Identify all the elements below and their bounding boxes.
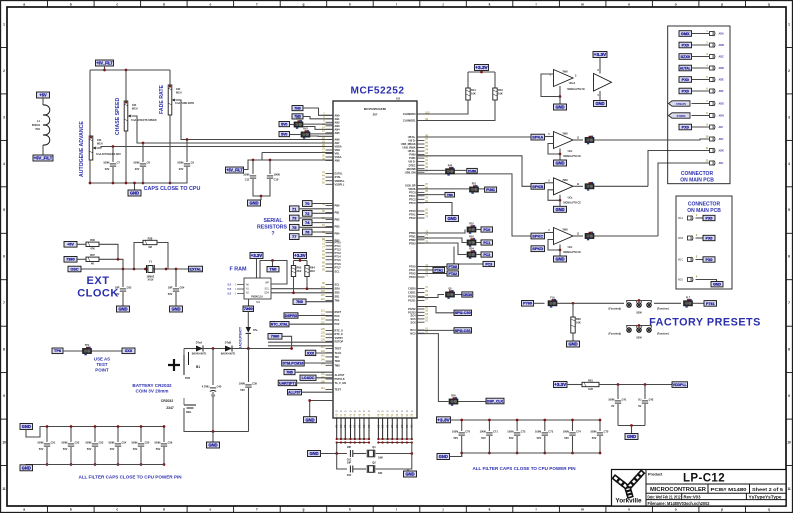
- svg-text:TN0: TN0: [335, 299, 340, 303]
- svg-text:FL7: FL7: [686, 297, 691, 300]
- svg-text:C10: C10: [274, 177, 279, 181]
- net label SUM3b: [531, 246, 545, 252]
- junction bottom rail b: [133, 182, 136, 185]
- svg-text:50V: 50V: [592, 436, 597, 440]
- svg-text:SPKC: SPKC: [532, 233, 543, 238]
- svg-text:i: i: [396, 2, 397, 6]
- svg-text:PTL6: PTL6: [335, 262, 342, 266]
- svg-text:AN6: AN6: [335, 138, 341, 142]
- svg-text:PTB2: PTB2: [409, 238, 416, 242]
- svg-text:d: d: [163, 2, 165, 6]
- svg-text:7N0: 7N0: [296, 300, 303, 304]
- svg-text:PTA1: PTA1: [409, 213, 416, 217]
- svg-text:110: 110: [321, 298, 326, 301]
- capacitor C8 100N: [133, 160, 150, 166]
- svg-text:RESISTORS: RESISTORS: [257, 225, 287, 231]
- svg-text:VSTBY: VSTBY: [335, 336, 344, 340]
- svg-text:MCH: MCH: [176, 91, 182, 94]
- svg-text:SZX0: SZX0: [681, 55, 691, 59]
- svg-text:PB3: PB3: [335, 225, 341, 229]
- svg-text:VDUSB: VDUSB: [407, 167, 416, 171]
- wire U6 vdd: [599, 58, 601, 74]
- svg-text:FACTORY PRESETS: FACTORY PRESETS: [649, 317, 761, 329]
- capacitor C11 100N: [243, 172, 256, 181]
- svg-text:5.5: 5.5: [228, 293, 232, 296]
- svg-text:FL6: FL6: [550, 297, 555, 300]
- svg-text:1M: 1M: [148, 245, 152, 249]
- wire C64 drop: [175, 269, 177, 287]
- svg-text:100N: 100N: [274, 172, 280, 176]
- svg-text:RTC_X: RTC_X: [335, 329, 344, 333]
- svg-text:PTA2: PTA2: [409, 216, 416, 220]
- svg-text:P761: P761: [706, 302, 715, 306]
- svg-text:GND: GND: [555, 257, 564, 262]
- svg-text:ADB: ADB: [719, 44, 724, 47]
- svg-text:7N1: 7N1: [35, 127, 40, 131]
- ferrite R51 cluster: [417, 188, 469, 190]
- wire C7 to rail: [112, 167, 114, 183]
- svg-text:Date: Wed Feb 22, 2012: Date: Wed Feb 22, 2012: [648, 495, 681, 500]
- svg-text:p: p: [721, 2, 723, 6]
- svg-text:SCL: SCL: [335, 269, 341, 273]
- svg-text:100N: 100N: [103, 160, 109, 164]
- ic U3 bottom pins: [336, 410, 414, 439]
- junction osc rail: [122, 268, 125, 271]
- wire mid caps bottom rail: [462, 452, 600, 454]
- svg-text:20V: 20V: [105, 167, 110, 171]
- svg-text:TEST: TEST: [335, 388, 342, 392]
- svg-text:AN1: AN1: [335, 117, 341, 121]
- junction batt mid: [212, 347, 215, 350]
- svg-text:UB D+: UB D+: [408, 149, 416, 153]
- svg-text:8: 8: [788, 348, 790, 352]
- connector J2 box: [676, 196, 732, 289]
- junction U5A fb: [559, 95, 562, 98]
- logo Yorkville: [613, 470, 645, 498]
- svg-text:7360: 7360: [271, 335, 279, 339]
- svg-text:OSC: OSC: [70, 267, 78, 271]
- svg-text:+5V: +5V: [39, 93, 47, 98]
- svg-text:SIGNALVTH CE: SIGNALVTH CE: [567, 88, 585, 91]
- crystal Y1: [147, 265, 155, 273]
- svg-text:7: 7: [3, 301, 5, 305]
- net label pta2: [417, 273, 447, 275]
- svg-text:18P: 18P: [347, 446, 352, 449]
- svg-text:50V: 50V: [537, 436, 542, 440]
- svg-text:Product: Product: [648, 473, 663, 477]
- svg-text:6: 6: [3, 255, 5, 259]
- svg-text:7960: 7960: [562, 133, 568, 136]
- svg-text:PTA1: PTA1: [409, 268, 416, 272]
- wire U5A gnd: [559, 97, 561, 105]
- svg-text:C72: C72: [521, 429, 526, 433]
- wire battery bottom rail: [184, 418, 249, 432]
- svg-text:R52: R52: [469, 223, 474, 226]
- svg-text:UCxA: UCxA: [569, 82, 576, 85]
- svg-text:DTEC: DTEC: [409, 163, 416, 167]
- wire U5A feedback: [541, 74, 560, 97]
- net label AUXBLPWM: [278, 380, 297, 386]
- resistor R65 2K2 SDA: [293, 261, 295, 266]
- svg-text:Rev:V03: Rev:V03: [684, 495, 702, 500]
- svg-text:SDA: SDA: [335, 287, 341, 291]
- svg-text:PTA2: PTA2: [448, 272, 457, 276]
- svg-text:SIGNALVTH CE: SIGNALVTH CE: [563, 201, 581, 204]
- wire L1 to +5V_FILT: [42, 145, 44, 155]
- svg-text:10K: 10K: [471, 91, 476, 95]
- svg-text:50V: 50V: [133, 447, 138, 451]
- crystal Q2: [367, 465, 375, 473]
- svg-text:50V: 50V: [156, 447, 161, 451]
- transistor CSD cluster: [417, 295, 444, 298]
- svg-text:+3.3V: +3.3V: [475, 65, 488, 70]
- ground right gnd2: [446, 216, 459, 222]
- svg-text:AN7: AN7: [335, 141, 341, 145]
- svg-text:VS: VS: [344, 424, 347, 428]
- svg-text:R56: R56: [451, 395, 456, 398]
- svg-text:10: 10: [787, 441, 791, 445]
- svg-text:ALLPST: ALLPST: [288, 391, 301, 395]
- op-amp U5D: [554, 228, 574, 245]
- ic U4 left pins: [228, 284, 244, 296]
- svg-text:2K2: 2K2: [297, 269, 302, 273]
- junction wp: [271, 259, 274, 262]
- svg-text:ADI: ADI: [719, 126, 723, 129]
- wire C63 gnd: [122, 292, 124, 306]
- wire to Q1: [337, 443, 347, 454]
- svg-text:C42: C42: [649, 397, 654, 401]
- resistor R64 2K2 SCL: [306, 261, 308, 266]
- net label ALLPST: [288, 390, 302, 395]
- svg-text:5V0: 5V0: [281, 122, 287, 126]
- net label STLPCM: [282, 360, 305, 366]
- svg-text:PTB3: PTB3: [409, 241, 416, 245]
- svg-text:PTL0: PTL0: [335, 240, 342, 244]
- capacitor C64 18P: [168, 285, 185, 291]
- connector J1 box: [668, 26, 730, 184]
- potentiometer VR2 CHASE SPEED: [124, 101, 131, 131]
- svg-text:C51: C51: [51, 440, 56, 444]
- svg-text:FM24CL16: FM24CL16: [251, 296, 263, 299]
- svg-text:4.7MU: 4.7MU: [202, 384, 210, 388]
- svg-text:125: 125: [321, 328, 326, 331]
- svg-text:RS0T: RS0T: [335, 310, 342, 314]
- svg-text:152: 152: [321, 372, 326, 375]
- varistor RV1: [294, 118, 303, 129]
- svg-text:131: 131: [321, 335, 326, 338]
- svg-text:SD1: SD1: [335, 295, 341, 299]
- svg-text:PTC3: PTC3: [409, 201, 416, 205]
- ground preset: [567, 341, 580, 347]
- svg-text:h: h: [349, 508, 351, 512]
- svg-text:C63: C63: [127, 285, 132, 289]
- junction battery rail: [212, 430, 215, 433]
- svg-text:146: 146: [321, 359, 326, 362]
- net label TN2: [293, 299, 306, 304]
- svg-text:ADH: ADH: [719, 115, 724, 118]
- svg-text:UCx: UCx: [568, 246, 573, 249]
- svg-text:c: c: [116, 508, 118, 512]
- svg-text:C9: C9: [191, 160, 195, 164]
- svg-text:VS: VS: [377, 424, 380, 428]
- junction gnd mid: [260, 195, 263, 198]
- svg-text:11: 11: [787, 487, 791, 491]
- wire gnd to Q1: [321, 453, 337, 455]
- svg-text:50V: 50V: [110, 447, 115, 451]
- net label spi cs1: [417, 329, 454, 331]
- svg-text:CRD0: CRD0: [463, 293, 473, 297]
- net label LOADCMD: [300, 375, 316, 380]
- svg-text:USB_RBIAS: USB_RBIAS: [401, 142, 416, 146]
- svg-text:100N: 100N: [108, 440, 114, 444]
- resistor R37 4K: [86, 253, 99, 266]
- wire preset 2: [557, 302, 624, 304]
- svg-text:50V: 50V: [168, 292, 173, 296]
- svg-text:(Function)(: (Function)(: [609, 333, 622, 336]
- svg-text:AN8: AN8: [335, 159, 341, 163]
- varistor RV2: [301, 128, 310, 139]
- op-amp ic body U3 MCF52252AF80: [333, 101, 417, 418]
- svg-text:VS: VS: [363, 424, 366, 428]
- wire c65 q1: [353, 453, 366, 455]
- svg-text:PTC0: PTC0: [409, 191, 416, 195]
- svg-text:20V: 20V: [179, 167, 184, 171]
- op-amp U5A: [554, 70, 574, 87]
- wire esd2: [303, 117, 333, 119]
- svg-text:C62: C62: [347, 474, 352, 477]
- svg-text:PTL7: PTL7: [335, 266, 342, 270]
- svg-text:50V: 50V: [87, 447, 92, 451]
- junction bottom power rails: [336, 438, 338, 440]
- power label ext clock r36: [64, 242, 77, 248]
- wire cap C8 tap: [142, 143, 144, 162]
- wire Q2 right: [376, 443, 412, 470]
- svg-text:100N: 100N: [243, 172, 249, 176]
- svg-text:9: 9: [3, 394, 5, 398]
- svg-text:U3: U3: [396, 97, 400, 101]
- svg-text:PX0: PX0: [682, 89, 689, 93]
- svg-text:Y1: Y1: [149, 259, 153, 263]
- svg-text:100N: 100N: [61, 440, 67, 444]
- svg-text:100N: 100N: [239, 381, 245, 385]
- svg-text:GND: GND: [171, 307, 180, 312]
- svg-text:SPI2-CS1: SPI2-CS1: [455, 329, 471, 333]
- svg-text:o: o: [675, 2, 677, 6]
- svg-text:C73: C73: [548, 429, 553, 433]
- svg-text:113: 113: [321, 309, 326, 312]
- ground test pin: [304, 417, 317, 423]
- svg-text:MCH: MCH: [97, 142, 103, 145]
- diode D7B BAS40: [221, 342, 236, 356]
- ic U3 left pins: [321, 113, 346, 392]
- svg-text:PX0: PX0: [706, 216, 713, 220]
- net label RTCX: [270, 322, 289, 327]
- junction bottom rail: [112, 182, 115, 185]
- svg-text:GND: GND: [555, 161, 564, 166]
- svg-text:PX0: PX0: [682, 125, 689, 129]
- svg-text:C39: C39: [252, 381, 257, 385]
- svg-text:C11: C11: [245, 177, 250, 181]
- wire vdda rail lower: [244, 160, 334, 170]
- svg-text:R53: R53: [469, 236, 474, 239]
- svg-text:100N: 100N: [590, 429, 596, 433]
- wire preset 1: [534, 302, 545, 304]
- svg-text:1U: 1U: [638, 397, 641, 401]
- serial resistor rows R70-R77: [290, 201, 334, 240]
- svg-text:R65: R65: [297, 266, 302, 270]
- svg-text:137: 137: [321, 346, 326, 349]
- ic U4 FM24CL16: [244, 278, 271, 299]
- capacitor C63 18P: [115, 285, 132, 291]
- svg-text:j: j: [442, 508, 444, 512]
- svg-text:100N: 100N: [85, 440, 91, 444]
- svg-text:5.5: 5.5: [228, 284, 232, 287]
- wire rv2: [290, 134, 302, 136]
- svg-text:LOADC: LOADC: [302, 376, 315, 380]
- svg-text:VS: VS: [340, 424, 343, 428]
- svg-text:R40: R40: [448, 165, 453, 168]
- svg-text:100N: 100N: [535, 429, 541, 433]
- svg-text:3: 3: [788, 115, 790, 119]
- svg-text:7960: 7960: [562, 179, 568, 182]
- svg-text:TDO: TDO: [335, 359, 340, 363]
- svg-text:AUTOGENE ADVANCE: AUTOGENE ADVANCE: [79, 121, 85, 177]
- svg-text:C/SD0: C/SD0: [408, 287, 416, 291]
- svg-text:YsTypeYsType: YsTypeYsType: [749, 495, 783, 500]
- svg-text:50V: 50V: [481, 436, 486, 440]
- svg-text:STMAPS: STMAPS: [676, 103, 686, 106]
- wire j1 pin10: [594, 139, 710, 140]
- net label pta0: [417, 266, 447, 268]
- resistor R61: [567, 384, 582, 386]
- svg-text:F RAM: F RAM: [229, 267, 247, 273]
- net label NC2: [284, 369, 295, 374]
- svg-text:MICROCONTROLER: MICROCONTROLER: [650, 487, 706, 493]
- svg-text:+5V_FILT: +5V_FILT: [34, 156, 53, 161]
- wire vdda upper bend: [261, 153, 263, 161]
- svg-text:p: p: [721, 508, 723, 512]
- svg-text:ON MAIN PCB: ON MAIN PCB: [680, 178, 714, 184]
- power label i2c pullups: [294, 253, 307, 259]
- svg-text:b: b: [70, 2, 72, 6]
- svg-text:USB_RBIA: USB_RBIA: [402, 146, 415, 150]
- wire osc rail: [81, 268, 200, 270]
- svg-text:C8: C8: [147, 160, 151, 164]
- svg-text:h: h: [349, 2, 351, 6]
- wire C64 gnd: [175, 292, 177, 306]
- wire bottom rail 1: [337, 438, 369, 440]
- svg-text:6V: 6V: [611, 404, 614, 408]
- net label pta1: [417, 269, 433, 271]
- svg-text:C40: C40: [217, 384, 222, 388]
- capacitor C10 100N: [267, 172, 280, 181]
- wire r37 out: [77, 258, 86, 260]
- svg-text:PTL4: PTL4: [335, 254, 342, 258]
- wire cap C9 tap: [186, 140, 188, 163]
- wire VR1 bottom: [89, 160, 91, 183]
- testpoint TP1: [83, 344, 92, 355]
- wire right gnd2: [417, 203, 452, 216]
- svg-text:VRL: VRL: [335, 152, 341, 156]
- ground pots: [134, 183, 136, 190]
- svg-text:C55: C55: [145, 440, 150, 444]
- svg-text:PX0: PX0: [706, 236, 713, 240]
- svg-text:PTB1: PTB1: [409, 235, 416, 239]
- svg-text:PSTCLK: PSTCLK: [335, 377, 345, 381]
- svg-text:10K: 10K: [498, 91, 503, 95]
- svg-text:100N: 100N: [608, 397, 614, 401]
- svg-text:SPKD: SPKD: [532, 246, 543, 251]
- svg-text:VDDA: VDDA: [335, 145, 342, 149]
- svg-text:EXT: EXT: [87, 275, 110, 287]
- svg-text:161: 161: [321, 387, 326, 390]
- wire C11 drop: [252, 160, 254, 174]
- wire d6 to rail: [247, 333, 249, 348]
- svg-text:ADF: ADF: [719, 90, 724, 93]
- wire usb sum1: [417, 136, 531, 138]
- svg-text:MCH: MCH: [132, 107, 138, 110]
- wire c39 drop: [248, 349, 250, 383]
- svg-text:TMS: TMS: [335, 363, 341, 367]
- transistors R52-R54 ptc cluster: [417, 223, 495, 267]
- svg-text:n: n: [628, 2, 630, 6]
- wire clkmod rail: [468, 71, 495, 73]
- svg-text:PTA3: PTA3: [409, 275, 416, 279]
- wire scl rail: [271, 288, 333, 290]
- wire C9 to gnd rail: [170, 167, 187, 183]
- svg-text:2: 2: [788, 69, 790, 73]
- svg-text:AN4: AN4: [335, 127, 341, 131]
- svg-text:UB D-: UB D-: [408, 139, 415, 143]
- svg-text:128: 128: [321, 332, 326, 335]
- svg-text:PTL2: PTL2: [335, 247, 342, 251]
- net label EXTAL right: [189, 266, 203, 272]
- svg-text:GND: GND: [208, 443, 217, 448]
- label plus sign: [168, 359, 180, 371]
- svg-text:PTC2: PTC2: [409, 197, 416, 201]
- ground vddpll: [631, 426, 633, 434]
- wire pullup rail: [299, 259, 301, 261]
- svg-text:Yorkville: Yorkville: [615, 498, 642, 505]
- svg-text:R38: R38: [148, 236, 153, 240]
- svg-text:5: 5: [788, 208, 790, 212]
- svg-text:VRH: VRH: [335, 148, 341, 152]
- svg-text:l: l: [536, 2, 537, 6]
- ic U3 right pins: [401, 111, 430, 335]
- wire Q1 right: [376, 453, 412, 455]
- potentiometer VR3 FADE RATE: [168, 85, 175, 115]
- wire vddpll rail: [599, 384, 672, 386]
- svg-text:R42: R42: [498, 88, 503, 92]
- svg-text:GMX: GMX: [681, 32, 690, 36]
- svg-text:(Function): (Function): [657, 308, 669, 311]
- svg-text:ADA: ADA: [719, 33, 724, 36]
- net label SUM1: [531, 134, 545, 140]
- svg-text:100N: 100N: [177, 160, 183, 164]
- svg-text:VDDPLL: VDDPLL: [335, 179, 346, 183]
- svg-text:18P: 18P: [347, 462, 352, 465]
- wire left caps bottom rail: [26, 465, 164, 471]
- svg-text:UART(PT): UART(PT): [279, 381, 297, 385]
- junction cap taps: [112, 145, 115, 148]
- svg-text:AN5: AN5: [335, 131, 341, 135]
- svg-text:ADE: ADE: [719, 79, 724, 82]
- svg-text:UCx: UCx: [568, 150, 573, 153]
- net label OSC: [68, 266, 81, 272]
- svg-text:4: 4: [3, 162, 5, 166]
- svg-text:VS: VS: [354, 424, 357, 428]
- title block outline: [612, 470, 787, 507]
